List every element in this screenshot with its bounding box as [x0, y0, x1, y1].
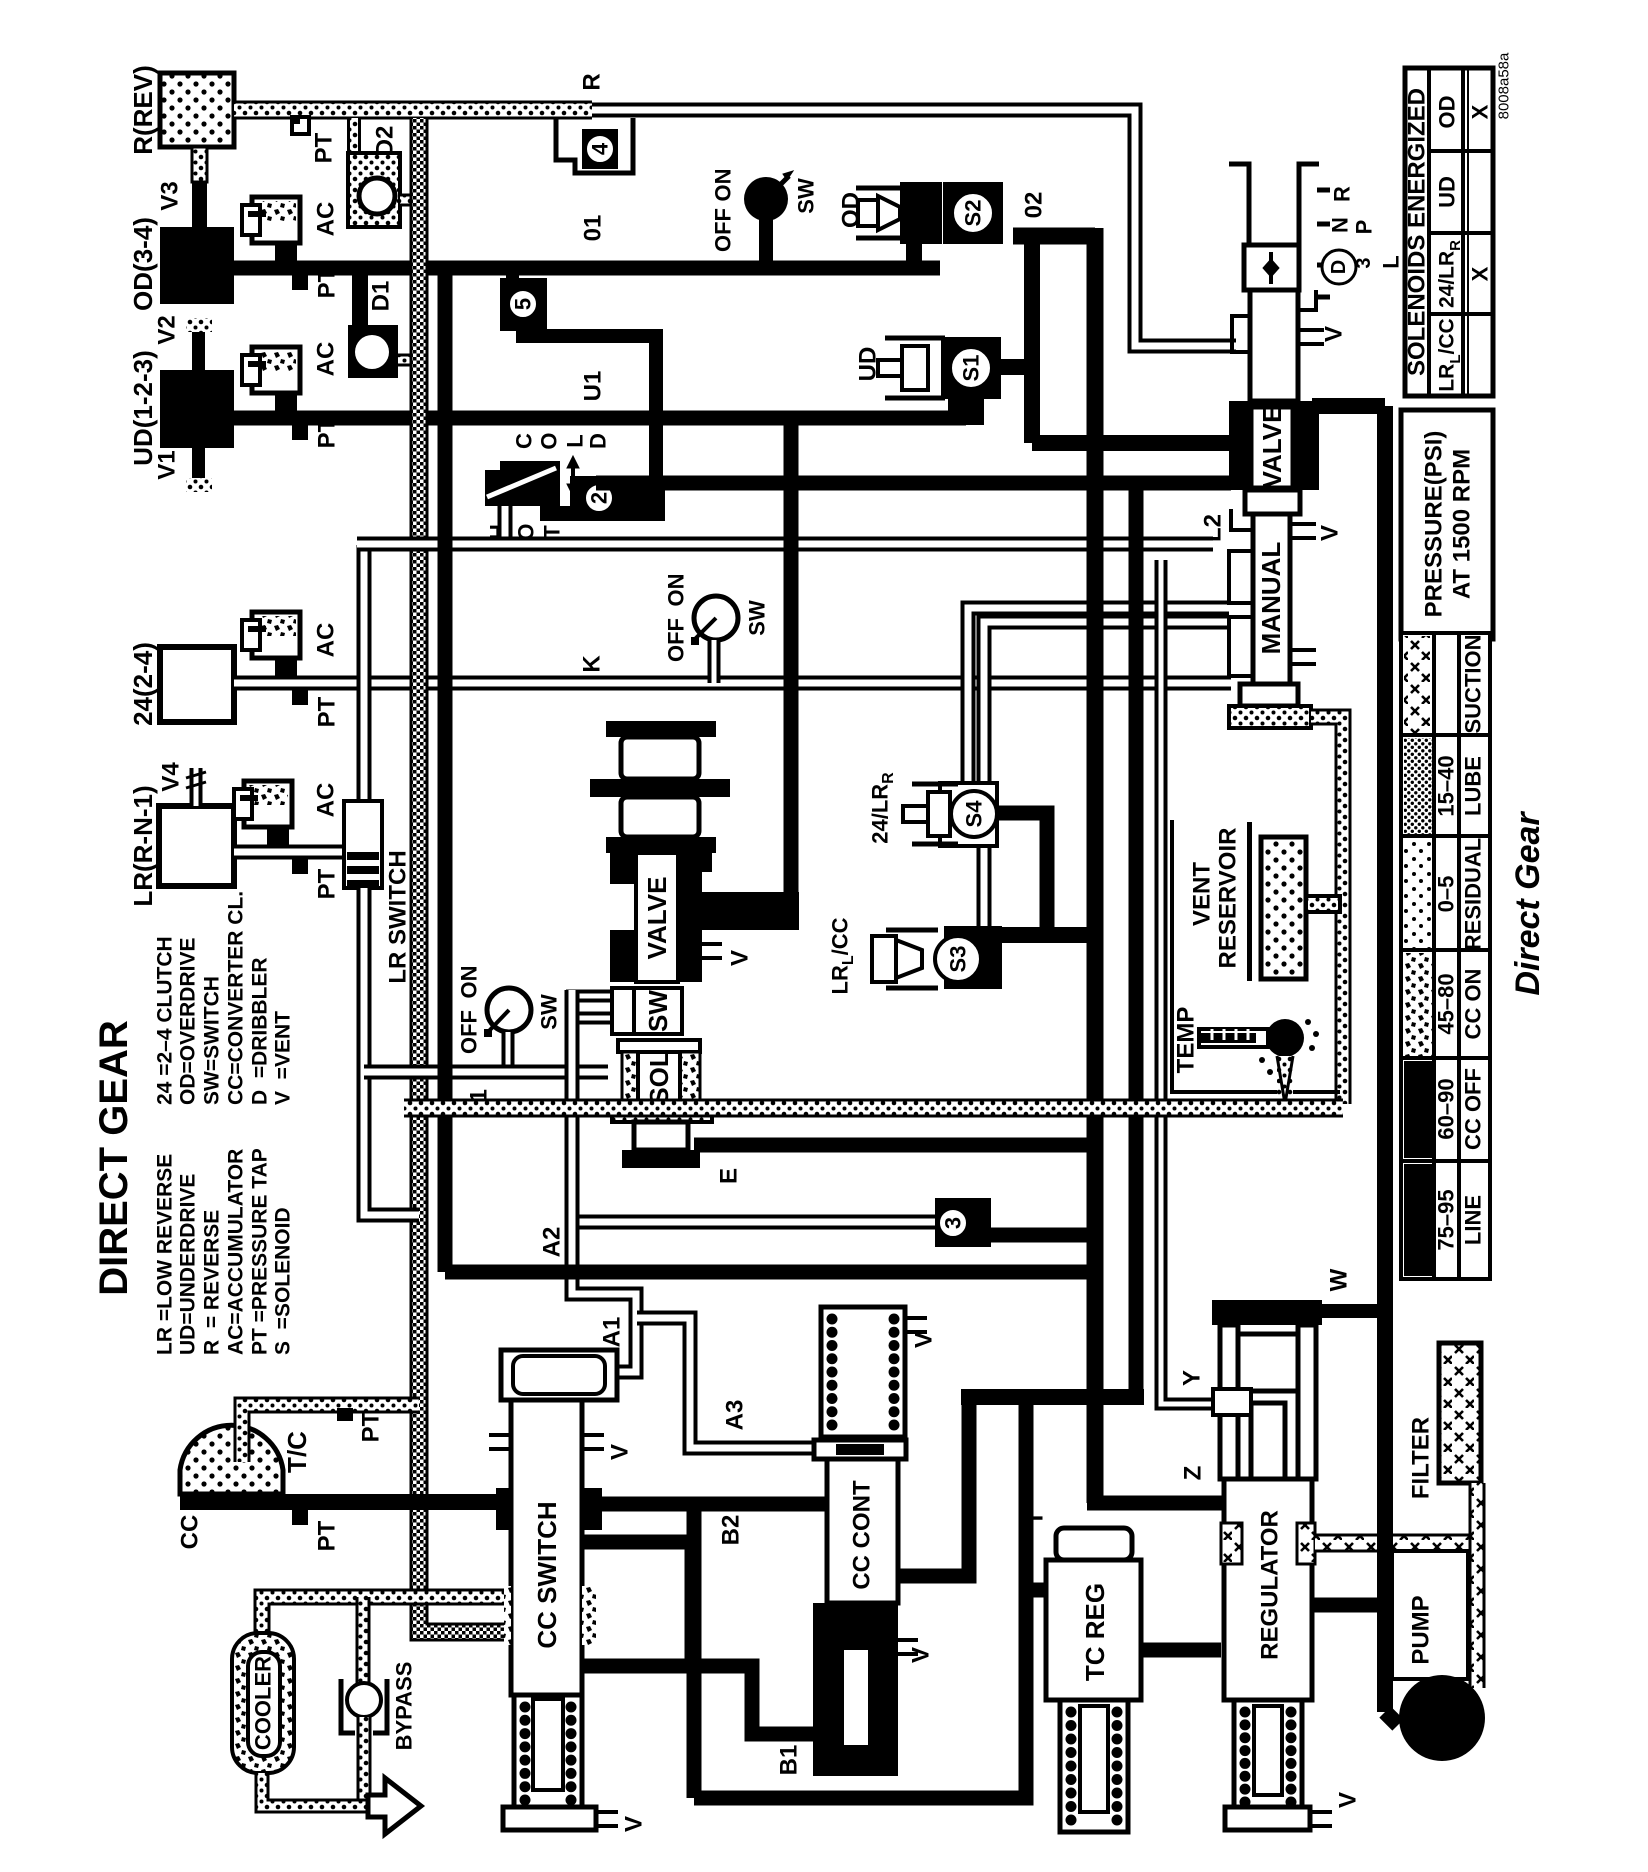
separator band 2 — [606, 837, 716, 853]
svg-text:S2: S2 — [961, 200, 986, 227]
line REGULATOR to main trunk — [1312, 1598, 1390, 1613]
svg-text:VALVE: VALVE — [1257, 406, 1287, 489]
svg-text:V: V — [1335, 1792, 1362, 1808]
CC SWITCH bottom flange — [503, 1807, 596, 1830]
svg-text:CC SWITCH: CC SWITCH — [532, 1501, 562, 1648]
line S4 output — [997, 813, 1047, 935]
line ball 3 to trunk A — [991, 1228, 1095, 1243]
svg-text:TC REG: TC REG — [1080, 1583, 1110, 1681]
svg-text:B1: B1 — [776, 1745, 803, 1776]
dribbler D2 — [347, 118, 361, 158]
REGULATOR suction wings — [1221, 1523, 1242, 1564]
svg-text:SW: SW — [745, 600, 770, 636]
svg-text:ON: ON — [457, 966, 482, 999]
legend swatch CC ON 45-80 — [1404, 953, 1432, 1056]
valve SOL section stippled — [622, 1052, 638, 1104]
line CC converter feed — [180, 1494, 504, 1510]
svg-text:OFF: OFF — [457, 1010, 482, 1054]
reservoir fluid stippled — [1261, 837, 1306, 979]
svg-text:AC: AC — [313, 623, 340, 658]
lube arrow — [368, 1778, 421, 1834]
line from LR switch down — [364, 888, 419, 1215]
REGULATOR W bar — [1212, 1300, 1322, 1325]
cooler COOLER — [232, 1633, 294, 1773]
svg-text:PT: PT — [314, 1520, 341, 1551]
svg-text:LR(R-N-1): LR(R-N-1) — [128, 785, 158, 906]
svg-text:PRESSURE(PSI): PRESSURE(PSI) — [1421, 431, 1448, 618]
check ball 2 box — [570, 476, 665, 521]
solenoid S1 with UD slot — [941, 337, 1001, 399]
svg-text:24(2-4): 24(2-4) — [128, 642, 158, 726]
line L1 — [364, 1065, 608, 1080]
overdraw A lower trunk — [445, 1265, 1095, 1280]
svg-text:CC: CC — [177, 1515, 204, 1550]
svg-text:D2: D2 — [372, 126, 399, 157]
line S1 branch — [1001, 359, 1032, 375]
svg-text:B2: B2 — [718, 1515, 745, 1546]
line thermal to L2 double — [498, 506, 513, 544]
line TC REG to REGULATOR — [1141, 1643, 1221, 1658]
svg-text:PT =PRESSURE TAP: PT =PRESSURE TAP — [249, 1148, 272, 1355]
vent V3 stub — [192, 147, 207, 182]
CC SWITCH valve top cap — [501, 1350, 617, 1400]
overdraw CC line — [180, 1494, 504, 1510]
piston 1 — [621, 737, 699, 779]
svg-text:T: T — [1022, 1510, 1049, 1525]
svg-text:V2: V2 — [154, 315, 181, 344]
svg-text:3: 3 — [1353, 257, 1375, 268]
svg-text:SOL: SOL — [644, 1051, 674, 1105]
TC REG body — [1046, 1560, 1141, 1700]
svg-text:SW: SW — [643, 990, 673, 1032]
reservoir outlet stub — [1306, 896, 1340, 912]
svg-text:0–5: 0–5 — [1434, 876, 1459, 913]
table line-type legend — [1401, 633, 1490, 1279]
pressure tap PT on UD line — [292, 425, 308, 440]
valve VALVE section — [610, 853, 712, 872]
svg-text:VENT: VENT — [1189, 862, 1216, 926]
legend swatch LUBE 15-40 — [1404, 738, 1432, 834]
svg-text:PUMP: PUMP — [1408, 1595, 1435, 1664]
manual valve left ports — [1231, 509, 1253, 530]
svg-text:L: L — [1379, 255, 1404, 268]
valve right rail — [678, 872, 702, 982]
CC SWITCH spring — [514, 1695, 582, 1812]
REGULATOR twin tubes — [1220, 1325, 1238, 1479]
svg-text:PT: PT — [314, 417, 341, 448]
accumulator AC on 24 line — [275, 656, 297, 676]
overdraw trunk B — [1129, 490, 1144, 1397]
manual valve upper body — [1250, 290, 1298, 401]
manual valve VALVE section — [1229, 401, 1319, 490]
line 02 vertical from S2 — [1024, 244, 1040, 443]
svg-text:RESERVOIR: RESERVOIR — [1215, 828, 1242, 969]
line T vertical to bottom — [694, 1397, 1026, 1798]
svg-text:CC=CONVERTER CL.: CC=CONVERTER CL. — [225, 891, 248, 1105]
manual valve shifter box with detent — [1244, 245, 1299, 290]
CC SWITCH port land blocks — [496, 1488, 511, 1530]
svg-text:8008a58a: 8008a58a — [1496, 52, 1513, 119]
wire S2 to 01 junction — [906, 244, 922, 268]
svg-text:SOLENOIDS ENERGIZED: SOLENOIDS ENERGIZED — [1404, 88, 1431, 376]
svg-text:N: N — [1328, 217, 1353, 233]
svg-text:24 =2–4 CLUTCH: 24 =2–4 CLUTCH — [154, 936, 177, 1105]
svg-text:FILTER: FILTER — [1408, 1417, 1435, 1499]
check ball 4 assembly — [556, 118, 633, 173]
overdrive clutch OD(3-4) box — [160, 227, 234, 304]
svg-text:2: 2 — [587, 492, 612, 504]
line R reverse supply double segment — [592, 110, 1236, 346]
svg-text:TEMP: TEMP — [1173, 1007, 1200, 1074]
PUMP — [1392, 1551, 1468, 1679]
svg-text:MANUAL: MANUAL — [1256, 542, 1286, 655]
pressure tap PT on OD line — [292, 275, 308, 290]
svg-text:75–95: 75–95 — [1434, 1189, 1459, 1250]
box PRESSURE(PSI) AT 1500 RPM — [1401, 410, 1493, 639]
line A2 vertical — [572, 990, 636, 1372]
line drop to CC CONT — [898, 1397, 969, 1576]
check ball 3 box — [935, 1198, 991, 1247]
line S3 feed from manual valve — [984, 622, 1229, 930]
separator band — [590, 779, 730, 797]
line T/C to LR trunk stippled — [242, 1405, 419, 1462]
svg-text:REGULATOR: REGULATOR — [1257, 1510, 1284, 1660]
CC SWITCH stipple region — [504, 1586, 511, 1645]
overdraw trunk A — [1087, 228, 1104, 1503]
CC SWITCH port marks — [489, 1435, 511, 1449]
line from ball 5 to thermal valve trunk — [523, 331, 656, 482]
line A3 — [637, 1318, 814, 1448]
svg-text:V: V — [911, 1332, 938, 1348]
valve bottom tray stippled — [612, 1104, 712, 1122]
svg-text:COOLER: COOLER — [251, 1656, 276, 1750]
svg-text:V: V — [908, 1647, 935, 1663]
line W to main trunk — [1322, 1304, 1390, 1318]
svg-text:UD: UD — [855, 347, 882, 382]
svg-text:C: C — [512, 433, 537, 449]
manual valve bracket arms — [1229, 164, 1249, 245]
svg-text:ON: ON — [664, 574, 689, 607]
line vertical 2-line to SOL valve right block — [784, 425, 799, 911]
svg-text:S3: S3 — [946, 946, 971, 973]
table SOLENOIDS ENERGIZED — [1405, 68, 1493, 396]
svg-text:K: K — [579, 655, 606, 673]
manual valve right vents — [1290, 524, 1316, 538]
svg-text:A2: A2 — [539, 1227, 566, 1258]
svg-text:R = REVERSE: R = REVERSE — [201, 1210, 224, 1355]
legend swatch RESIDUAL 0-5 — [1404, 839, 1432, 948]
switch SW on K line open — [694, 596, 738, 640]
manual valve bottom stippled tray to reservoir — [1229, 706, 1311, 728]
line LR feed — [234, 845, 364, 860]
vent V1 stub — [192, 448, 205, 478]
svg-text:V: V — [727, 950, 754, 966]
line 01 overdrive feed — [234, 261, 940, 276]
line thin to ball 3 — [572, 1215, 935, 1230]
svg-text:R(REV): R(REV) — [128, 65, 158, 155]
valve SW section — [634, 988, 682, 1034]
line cross T header — [961, 1389, 1144, 1405]
valve bottom cylinder — [634, 1122, 688, 1150]
svg-text:AC: AC — [313, 342, 340, 377]
svg-text:R: R — [579, 73, 606, 90]
arrow two-way — [571, 462, 575, 490]
legend swatch LINE 75-95 — [1404, 1164, 1432, 1276]
svg-text:LR SWITCH: LR SWITCH — [385, 850, 412, 983]
pressure tap PT on R line — [292, 117, 309, 134]
line vertical main left trunk — [438, 268, 453, 1272]
svg-text:V: V — [607, 1444, 634, 1460]
line 2-output to manual valve (thick) — [596, 476, 1231, 491]
line R reverse supply stippled segment — [234, 101, 592, 120]
svg-text:PT: PT — [358, 1411, 385, 1442]
svg-text:PT: PT — [314, 267, 341, 298]
svg-text:5: 5 — [511, 298, 536, 310]
accumulator AC on OD line — [275, 241, 297, 261]
CC CONT body — [827, 1459, 898, 1603]
pressure tap PT on LR line — [292, 859, 308, 874]
svg-text:O: O — [537, 432, 562, 449]
piston 2 — [621, 797, 699, 837]
line A lower trunk — [445, 1265, 1095, 1280]
svg-text:U1: U1 — [580, 371, 607, 402]
retainer band — [618, 1040, 700, 1052]
svg-text:CC ON: CC ON — [1461, 969, 1486, 1040]
vent V2 stub — [192, 332, 205, 370]
manual valve MANUAL section cap — [1245, 490, 1300, 514]
legend swatch SUCTION — [1404, 636, 1432, 733]
line U1 underdrive feed — [234, 411, 966, 426]
svg-text:3: 3 — [941, 1217, 966, 1229]
pressure tap PT on TC line — [337, 1408, 353, 1421]
line K 2-4 clutch feed — [234, 676, 1231, 691]
svg-text:V: V — [621, 1816, 648, 1832]
pressure tap PT on CC line — [292, 1510, 308, 1525]
line E — [694, 1138, 1095, 1153]
line S4 feed from manual valve — [968, 608, 1229, 783]
line CC SWITCH drop to bottom — [687, 1504, 702, 1798]
solenoid S4 with 24/LRr slot — [940, 783, 997, 846]
check ball 5 box — [500, 278, 547, 331]
TC REG spring — [1060, 1700, 1128, 1832]
vent V notches on valve — [702, 944, 722, 958]
LR switch junction element — [344, 801, 382, 888]
underdrive clutch UD(1-2-3) box — [160, 370, 234, 448]
wire S1 drop to U1 — [948, 398, 984, 425]
svg-text:DIRECT GEAR: DIRECT GEAR — [92, 1020, 136, 1296]
svg-text:PT: PT — [314, 696, 341, 727]
solenoid S3 with LR/CC funnel — [944, 926, 1002, 989]
line B2 — [582, 1497, 827, 1512]
svg-text:D1: D1 — [368, 281, 395, 312]
REGULATOR body — [1224, 1479, 1312, 1700]
svg-text:V: V — [1321, 326, 1348, 342]
overdraw suction line on top — [404, 1099, 1343, 1118]
accumulator AC on UD line — [275, 391, 297, 411]
svg-text:OD(3-4): OD(3-4) — [128, 217, 158, 311]
svg-text:PT: PT — [314, 868, 341, 899]
svg-text:OD: OD — [838, 192, 865, 228]
solenoid switch valve body top cap — [606, 721, 716, 737]
svg-text:02: 02 — [1021, 192, 1048, 219]
line CC SWITCH mid to B1 — [582, 1666, 816, 1734]
svg-text:V: V — [1317, 525, 1344, 541]
dribbler D1 — [348, 325, 398, 378]
svg-text:60–90: 60–90 — [1434, 1078, 1459, 1139]
legend swatch CC OFF 60-90 — [1404, 1061, 1432, 1158]
svg-text:X: X — [1468, 104, 1493, 119]
svg-text:S =SOLENOID: S =SOLENOID — [272, 1207, 295, 1355]
svg-text:Z: Z — [1180, 1466, 1207, 1481]
switch SW on L1 line open — [487, 988, 531, 1032]
svg-text:D: D — [586, 433, 611, 449]
vent V4 stub with break — [190, 768, 203, 806]
manual valve MANUAL spool — [1253, 514, 1290, 684]
svg-text:V =VENT: V =VENT — [272, 1011, 295, 1105]
line suction regulator to filter x-hatch — [1315, 1534, 1473, 1553]
svg-text:V1: V1 — [154, 450, 181, 479]
reservoir wall line — [1247, 822, 1252, 981]
svg-text:ON: ON — [711, 169, 736, 202]
svg-text:LR =LOW REVERSE: LR =LOW REVERSE — [154, 1154, 177, 1355]
filter suction tube down to pump — [1469, 1483, 1486, 1688]
svg-text:SUCTION: SUCTION — [1461, 635, 1486, 734]
svg-text:CC OFF: CC OFF — [1461, 1068, 1486, 1150]
svg-text:UD=UNDERDRIVE: UD=UNDERDRIVE — [177, 1174, 200, 1355]
svg-text:V3: V3 — [157, 181, 184, 210]
CC CONT spring box — [821, 1307, 905, 1437]
svg-text:D: D — [1328, 260, 1350, 274]
svg-text:RESIDUAL: RESIDUAL — [1461, 838, 1486, 950]
svg-text:Direct Gear: Direct Gear — [1509, 811, 1547, 996]
line T to TC REG port — [1026, 1583, 1046, 1598]
svg-text:L: L — [563, 434, 588, 447]
line trunk B vertical — [1129, 490, 1144, 1397]
svg-text:VALVE: VALVE — [642, 877, 672, 960]
line suction main stippled — [404, 1099, 1343, 1118]
svg-text:OFF: OFF — [664, 618, 689, 662]
switch SW pressure switch filled — [744, 177, 788, 221]
svg-text:OD=OVERDRIVE: OD=OVERDRIVE — [177, 938, 200, 1105]
svg-text:AC=ACCUMULATOR: AC=ACCUMULATOR — [225, 1149, 248, 1355]
gear selector indicator — [1317, 190, 1330, 297]
line Y feed vertical thin — [1161, 560, 1213, 1404]
svg-text:SW: SW — [537, 994, 562, 1030]
line trunk A vertical from S2 to regulator Z port — [1013, 228, 1095, 245]
svg-text:AT 1500 RPM: AT 1500 RPM — [1449, 449, 1476, 599]
overdraw trunk vertical left — [438, 268, 453, 1272]
svg-text:OFF: OFF — [711, 208, 736, 252]
svg-text:L2: L2 — [1200, 514, 1227, 542]
svg-text:P: P — [1352, 220, 1377, 235]
svg-text:T/C: T/C — [282, 1431, 312, 1473]
svg-text:UD(1-2-3): UD(1-2-3) — [128, 350, 158, 466]
thermal bypass valve HOT/COLD — [485, 461, 560, 506]
svg-text:LINE: LINE — [1461, 1195, 1486, 1245]
svg-text:R: R — [1330, 186, 1355, 202]
reverse clutch R(REV) stippled box — [160, 73, 234, 147]
svg-text:LUBE: LUBE — [1461, 756, 1486, 816]
svg-text:45–80: 45–80 — [1434, 973, 1459, 1034]
bypass valve BYPASS — [356, 1597, 371, 1690]
line from 2-line down to LR switch thin — [357, 545, 372, 805]
pressure tap PT on 24 line — [292, 690, 308, 705]
svg-text:SW: SW — [794, 178, 819, 214]
line S3/S4 to trunk A — [1002, 927, 1095, 943]
CC CONT solenoid — [813, 1603, 898, 1776]
svg-text:W: W — [1326, 1268, 1353, 1291]
svg-text:Y: Y — [1179, 1370, 1206, 1386]
torque converter T/C dome — [180, 1425, 283, 1494]
REGULATOR bottom flange — [1225, 1807, 1310, 1830]
line CC SWITCH port to junction — [582, 1535, 692, 1550]
svg-text:CC CONT: CC CONT — [849, 1480, 876, 1590]
svg-text:BYPASS: BYPASS — [392, 1662, 417, 1751]
line cooler outlet to lube arrow stippled — [262, 1773, 390, 1806]
manual valve bottom cap — [1240, 684, 1298, 706]
svg-text:S1: S1 — [959, 355, 984, 382]
svg-text:UD: UD — [1435, 176, 1460, 208]
CC CONT retainer — [814, 1440, 906, 1459]
accumulator AC on LR line — [267, 825, 289, 845]
svg-text:A3: A3 — [722, 1400, 749, 1431]
svg-text:OD: OD — [1435, 96, 1460, 129]
vent box thin outline — [1172, 820, 1340, 1092]
svg-text:X: X — [1468, 266, 1493, 281]
svg-text:PT: PT — [311, 132, 338, 163]
solenoid S2 with OD funnel — [900, 182, 942, 244]
REGULATOR Y port — [1213, 1389, 1251, 1415]
line to manual valve upper port — [1032, 435, 1231, 451]
line LR switch trunk hatched vertical — [419, 118, 504, 1632]
svg-text:S4: S4 — [962, 800, 987, 828]
FILTER box — [1439, 1343, 1481, 1483]
line SW section feeds thin — [566, 990, 616, 1003]
svg-text:E: E — [716, 1168, 743, 1184]
REGULATOR spring — [1234, 1700, 1302, 1814]
svg-text:V4: V4 — [158, 762, 185, 792]
svg-text:AC: AC — [313, 202, 340, 237]
svg-text:A1: A1 — [599, 1317, 626, 1348]
svg-text:01: 01 — [580, 215, 607, 242]
CC SWITCH valve body — [511, 1400, 582, 1695]
valve left rail — [610, 872, 636, 884]
main trunk vertical right — [1377, 406, 1393, 1712]
line cooler loop stippled — [262, 1597, 504, 1633]
svg-text:SW=SWITCH: SW=SWITCH — [201, 976, 224, 1105]
svg-text:AC: AC — [313, 783, 340, 818]
low-reverse clutch box LR(R-N-1) — [159, 806, 234, 886]
svg-text:D =DRIBBLER: D =DRIBBLER — [249, 957, 272, 1105]
2-4 clutch box 24(2-4) — [160, 647, 234, 722]
svg-text:15–40: 15–40 — [1434, 755, 1459, 816]
svg-text:4: 4 — [588, 142, 613, 155]
TC REG top cap — [1056, 1528, 1132, 1560]
